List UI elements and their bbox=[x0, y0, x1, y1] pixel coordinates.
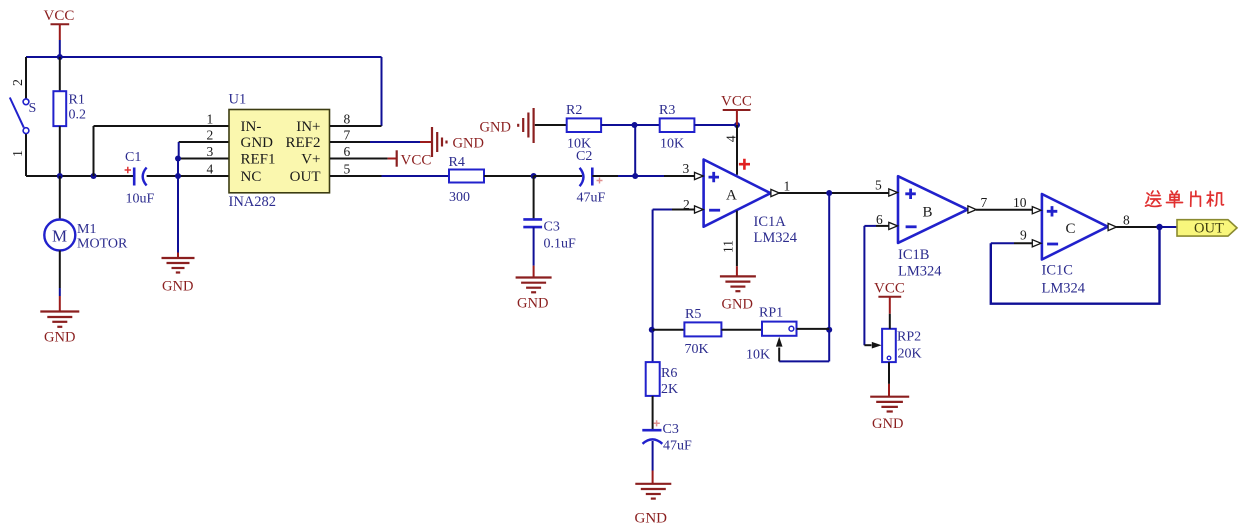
svg-text:NC: NC bbox=[241, 169, 262, 185]
capacitor C3 0.1uF bbox=[523, 176, 576, 278]
node junction R1/bottom rail bbox=[57, 173, 63, 179]
svg-text:GND: GND bbox=[722, 297, 753, 313]
svg-text:MOTOR: MOTOR bbox=[77, 237, 128, 252]
wire node to R5 bbox=[653, 329, 685, 331]
wire wiper return bbox=[779, 360, 829, 362]
capacitor C1 bbox=[125, 150, 155, 207]
resistor R1 bbox=[53, 57, 86, 176]
svg-text:R4: R4 bbox=[449, 155, 465, 170]
pin number 4 (rotated) bbox=[724, 135, 739, 142]
node junction R5 row bbox=[649, 327, 655, 333]
svg-text:R5: R5 bbox=[685, 307, 701, 322]
power + mark (IC1A V+) bbox=[739, 159, 750, 170]
wire pin8 stub bbox=[330, 125, 382, 127]
wire riser R2 row to main row bbox=[634, 125, 636, 176]
svg-text:VCC: VCC bbox=[401, 153, 432, 169]
pin arrow 1 (output) bbox=[771, 189, 779, 196]
wire pin6 bbox=[864, 225, 876, 227]
svg-text:IC1A: IC1A bbox=[754, 214, 787, 230]
svg-text:8: 8 bbox=[344, 112, 351, 127]
ground (C3 47uF) bbox=[635, 484, 671, 499]
wire output to IC1B bbox=[779, 192, 889, 194]
svg-text:R6: R6 bbox=[661, 366, 677, 381]
svg-text:2: 2 bbox=[11, 79, 26, 86]
svg-text:IC1C: IC1C bbox=[1042, 263, 1073, 279]
pin arrow 5 bbox=[889, 189, 898, 196]
pin arrow 7 (output) bbox=[968, 206, 976, 213]
op-amp IC1C bbox=[1042, 194, 1108, 297]
wire C1 to U1 pin4 bbox=[147, 175, 229, 177]
svg-text:20K: 20K bbox=[898, 347, 922, 362]
wire feedback loop C bbox=[991, 227, 1160, 304]
svg-text:B: B bbox=[923, 205, 933, 221]
resistor R2 bbox=[566, 103, 601, 152]
ground (RP2) bbox=[870, 397, 909, 412]
svg-text:C: C bbox=[1066, 221, 1076, 237]
pin arrow 6 bbox=[889, 222, 898, 229]
svg-text:IN-: IN- bbox=[241, 119, 262, 135]
ground (R2 left, sideways) bbox=[518, 108, 533, 143]
pin arrow 8 (output) bbox=[1108, 223, 1116, 230]
svg-text:3: 3 bbox=[207, 144, 214, 159]
svg-text:1: 1 bbox=[207, 112, 214, 127]
pin number 11 (rotated) bbox=[721, 240, 736, 253]
op-amp U1 INA282 bbox=[229, 92, 330, 211]
wire pin6 riser to wiper bbox=[863, 226, 865, 345]
op-amp IC1B bbox=[898, 176, 968, 279]
wire output IC1B to IC1C bbox=[976, 209, 1032, 211]
wire bottom-left rail bbox=[26, 175, 134, 177]
wire node to pin3 arrow bbox=[635, 175, 664, 177]
svg-text:2: 2 bbox=[683, 197, 690, 212]
svg-text:GND: GND bbox=[241, 135, 274, 151]
wire C2 to node bbox=[592, 175, 618, 177]
potentiometer RP2 bbox=[864, 329, 921, 362]
svg-text:OUT: OUT bbox=[1194, 221, 1224, 237]
svg-text:300: 300 bbox=[449, 190, 470, 205]
svg-text:GND: GND bbox=[872, 416, 903, 432]
wire RP1 to node bbox=[797, 328, 830, 330]
wire R2 to R3 bbox=[601, 124, 660, 126]
svg-text:RP1: RP1 bbox=[759, 306, 783, 321]
wire R5 to RP1 bbox=[721, 329, 762, 331]
svg-text:GND: GND bbox=[162, 279, 193, 295]
wire pin2 bbox=[653, 209, 672, 211]
svg-text:IN+: IN+ bbox=[296, 119, 320, 135]
pin arrow 9 bbox=[1032, 240, 1041, 247]
svg-text:A: A bbox=[726, 188, 737, 204]
wire REF1 pin3 stub bbox=[178, 158, 229, 160]
svg-text:OUT: OUT bbox=[290, 169, 321, 185]
wire output to node bbox=[1116, 226, 1159, 228]
svg-text:1: 1 bbox=[11, 150, 26, 157]
pin arrow 2 bbox=[695, 206, 704, 213]
svg-text:5: 5 bbox=[344, 162, 351, 177]
ground (pin7, sideways) bbox=[432, 127, 447, 157]
svg-text:10K: 10K bbox=[746, 348, 770, 363]
node junction top rail / R1 bbox=[57, 54, 63, 60]
svg-text:M: M bbox=[52, 227, 67, 246]
wire top rail bbox=[26, 56, 382, 58]
svg-text:10K: 10K bbox=[660, 137, 684, 152]
svg-text:GND: GND bbox=[517, 296, 548, 312]
svg-text:1: 1 bbox=[784, 179, 791, 194]
svg-text:U1: U1 bbox=[229, 92, 247, 108]
svg-text:6: 6 bbox=[876, 212, 883, 227]
svg-text:R2: R2 bbox=[566, 103, 582, 118]
node junction output/feedback bbox=[826, 190, 832, 196]
svg-text:LM324: LM324 bbox=[1042, 281, 1086, 297]
svg-text:GND: GND bbox=[480, 120, 511, 136]
svg-text:RP2: RP2 bbox=[897, 330, 921, 345]
wire node to port bbox=[1160, 226, 1178, 228]
wire GND pin2 L bbox=[179, 141, 229, 143]
svg-text:REF1: REF1 bbox=[241, 152, 276, 168]
wire IN- net (pin1) bbox=[94, 126, 230, 176]
resistor R4 bbox=[449, 155, 485, 205]
wire pin6 stub / power VCC (pin6) bbox=[330, 158, 388, 160]
svg-text:47uF: 47uF bbox=[577, 191, 606, 206]
svg-text:S: S bbox=[29, 101, 37, 116]
wire RP2 to ground bbox=[888, 362, 890, 384]
svg-text:2K: 2K bbox=[661, 382, 678, 397]
wire pin4 drop bbox=[736, 125, 738, 175]
svg-text:C3: C3 bbox=[544, 220, 560, 235]
svg-text:4: 4 bbox=[724, 135, 739, 142]
svg-text:0.2: 0.2 bbox=[69, 108, 87, 123]
svg-text:IC1B: IC1B bbox=[898, 247, 929, 263]
text 送单片机 (red annotation) bbox=[1146, 191, 1224, 207]
node junction output/feedback C bbox=[1156, 224, 1162, 230]
wire gnd to R2 bbox=[535, 124, 567, 126]
wire R3 to VCC node bbox=[694, 124, 737, 126]
svg-text:R3: R3 bbox=[659, 103, 675, 118]
wire R4 to node bbox=[484, 175, 534, 177]
svg-text:VCC: VCC bbox=[44, 8, 75, 24]
power VCC (top left) bbox=[44, 8, 75, 57]
power VCC (RP2) bbox=[874, 281, 905, 329]
node junction rail/GND drop bbox=[175, 173, 181, 179]
pin arrow 3 bbox=[695, 172, 704, 179]
ground (IC1A) bbox=[720, 276, 756, 291]
wire pin7 stub bbox=[330, 141, 370, 143]
svg-text:INA282: INA282 bbox=[229, 194, 277, 210]
potentiometer RP1 bbox=[746, 306, 797, 363]
node junction RP1 right bbox=[826, 327, 832, 333]
svg-text:R1: R1 bbox=[69, 93, 85, 108]
pin arrow 10 bbox=[1032, 207, 1041, 214]
node junction C3 tap bbox=[531, 173, 537, 179]
svg-text:10uF: 10uF bbox=[126, 192, 155, 207]
resistor R5 bbox=[684, 307, 721, 357]
node junction pin2/pin3 bbox=[175, 156, 181, 162]
wire feedback riser (pin1 to RP1 node) bbox=[828, 193, 830, 361]
port OUT bbox=[1177, 220, 1237, 237]
wire pin11 drop bbox=[736, 211, 738, 267]
node junction IN- branch bbox=[91, 173, 97, 179]
svg-text:5: 5 bbox=[875, 178, 882, 193]
svg-text:LM324: LM324 bbox=[754, 230, 798, 246]
wire pin9 bbox=[991, 242, 1014, 244]
svg-text:11: 11 bbox=[721, 240, 736, 253]
svg-text:C3: C3 bbox=[663, 422, 679, 437]
power VCC (R3 right) bbox=[721, 94, 752, 126]
svg-text:4: 4 bbox=[207, 162, 214, 177]
motor M1 bbox=[44, 176, 128, 312]
wire node to C2 bbox=[534, 175, 582, 177]
ground (C1 node) bbox=[162, 258, 195, 273]
svg-text:2: 2 bbox=[207, 128, 214, 143]
ground (motor) bbox=[40, 312, 79, 327]
wire pin5 / main row bbox=[330, 175, 382, 177]
op-amp IC1A bbox=[704, 160, 798, 247]
node junction R2R3/C2 bbox=[632, 173, 638, 179]
wire pin8 riser bbox=[381, 57, 383, 126]
capacitor C2 bbox=[576, 149, 606, 206]
svg-text:V+: V+ bbox=[301, 152, 320, 168]
resistor R6 bbox=[646, 362, 678, 397]
wire inverting input riser bbox=[652, 210, 654, 363]
svg-text:8: 8 bbox=[1123, 213, 1130, 228]
svg-text:M1: M1 bbox=[77, 222, 96, 237]
svg-text:LM324: LM324 bbox=[898, 264, 942, 280]
svg-text:10K: 10K bbox=[567, 137, 591, 152]
svg-text:VCC: VCC bbox=[721, 94, 752, 110]
svg-text:6: 6 bbox=[344, 144, 351, 159]
svg-text:REF2: REF2 bbox=[285, 135, 320, 151]
svg-text:GND: GND bbox=[635, 511, 668, 527]
node junction C2 riser bbox=[632, 122, 638, 128]
svg-text:10: 10 bbox=[1013, 195, 1027, 210]
svg-text:3: 3 bbox=[683, 161, 690, 176]
svg-text:VCC: VCC bbox=[874, 281, 905, 297]
svg-text:GND: GND bbox=[453, 136, 484, 152]
wire GND drop bbox=[177, 176, 179, 253]
node junction VCC/pin4 bbox=[734, 122, 740, 128]
wire node to rail bbox=[177, 159, 179, 177]
ground (C3) bbox=[516, 278, 552, 293]
svg-text:7: 7 bbox=[981, 195, 988, 210]
svg-text:9: 9 bbox=[1020, 228, 1027, 243]
svg-text:GND: GND bbox=[44, 330, 75, 346]
resistor R3 bbox=[659, 103, 694, 152]
svg-text:70K: 70K bbox=[685, 342, 709, 357]
capacitor C3 47uF bbox=[642, 396, 692, 484]
svg-text:47uF: 47uF bbox=[663, 439, 692, 454]
switch S bbox=[10, 57, 36, 176]
svg-text:C1: C1 bbox=[125, 150, 141, 165]
svg-text:0.1uF: 0.1uF bbox=[544, 237, 577, 252]
svg-text:7: 7 bbox=[344, 128, 351, 143]
